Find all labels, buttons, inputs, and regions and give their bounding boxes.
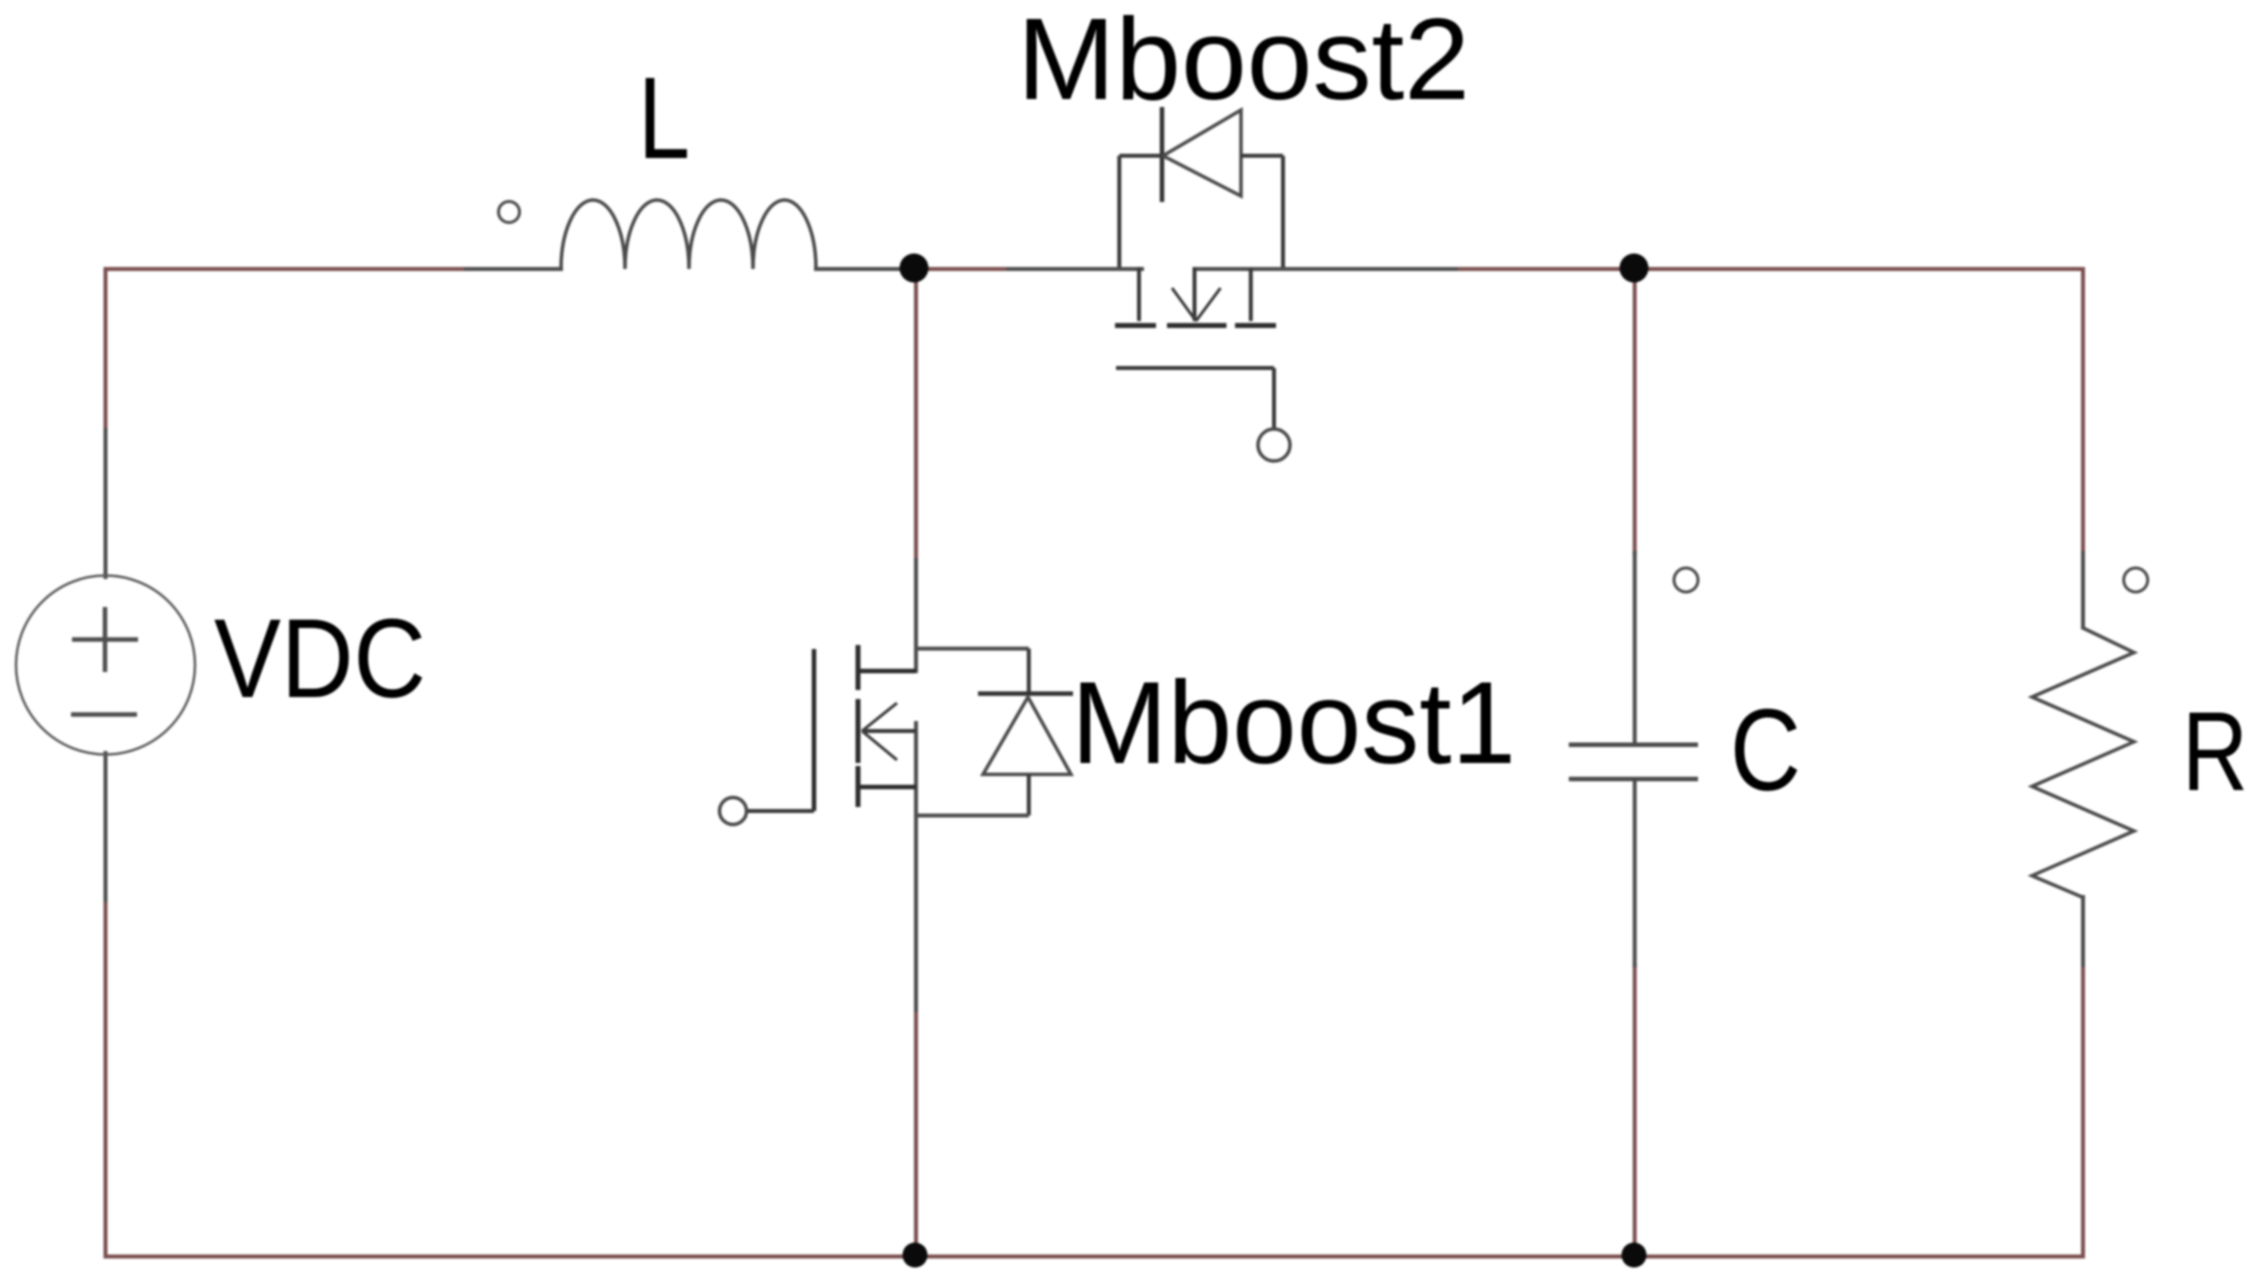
svg-text:VDC: VDC <box>214 596 426 721</box>
svg-text:Mboost1: Mboost1 <box>1071 657 1516 788</box>
svg-text:C: C <box>1730 685 1801 815</box>
svg-text:R: R <box>2182 689 2248 814</box>
svg-text:Mboost2: Mboost2 <box>1017 0 1470 124</box>
svg-text:L: L <box>638 53 690 183</box>
